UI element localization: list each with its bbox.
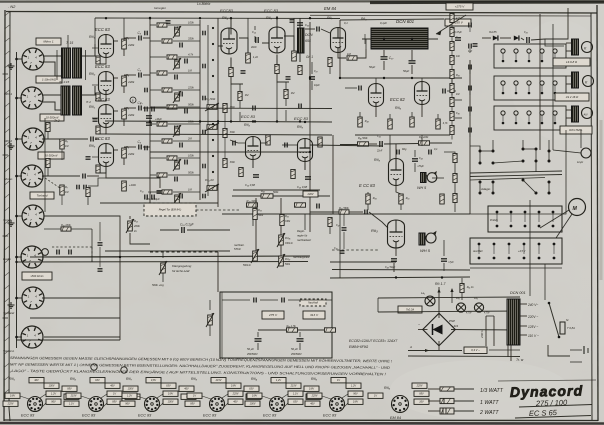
pinout socket Rö₃ ECC 83 (210, 397, 225, 412)
transformer Tr1 winding A (62, 48, 71, 78)
feedback rect loop (220, 292, 332, 358)
svg-text:220k: 220k (187, 86, 194, 90)
svg-text:46V: 46V (110, 385, 115, 388)
misc left caps (93, 119, 98, 121)
svg-text:ECC 83: ECC 83 (82, 414, 96, 418)
svg-text:560k: 560k (273, 191, 279, 194)
coupling cap stage2 (139, 73, 141, 78)
svg-text:Rö₅: Rö₅ (311, 377, 318, 381)
ECC82 splitter left half (369, 84, 384, 107)
svg-text:0,9V: 0,9V (168, 393, 173, 396)
6,3V box (464, 347, 487, 354)
output jack K1 (582, 42, 593, 53)
svg-text:96V: 96V (51, 401, 56, 404)
svg-text:≥500 Ω/min: ≥500 Ω/min (31, 275, 44, 278)
cap C5 pair (77, 185, 79, 190)
svg-text:1,2V: 1,2V (51, 393, 56, 396)
svg-text:1,1V: 1,1V (293, 393, 298, 396)
svg-text:46V: 46V (310, 403, 315, 406)
svg-text:C₄₂: C₄₂ (334, 247, 338, 250)
value boxes around Rö₂ (105, 383, 120, 388)
svg-text:96V: 96V (353, 393, 358, 396)
svg-text:330k lin: 330k lin (285, 243, 294, 245)
svg-text:Rö₁: Rö₁ (89, 105, 96, 109)
socket label boxes (36, 38, 61, 45)
tone row 3 cap (185, 59, 187, 64)
tone row 4 cap (175, 75, 177, 80)
triode Rö2 lower (246, 137, 261, 160)
svg-text:0,1: 0,1 (344, 21, 348, 25)
pot Pol34 500k lin (253, 251, 258, 261)
svg-text:T. 15: T. 15 (66, 41, 73, 45)
svg-text:275 / 100: 275 / 100 (535, 398, 568, 408)
mains fuse (560, 322, 565, 334)
svg-text:230V: 230V (306, 192, 313, 196)
mid dashed link (332, 249, 378, 251)
tone row 5 pot (175, 93, 180, 101)
svg-text:63V: 63V (95, 379, 100, 382)
svg-text:220k: 220k (127, 152, 135, 156)
svg-text:R₄₅: R₄₅ (261, 190, 265, 193)
svg-text:Ltspr: Ltspr (577, 160, 584, 164)
coupling cap stage3 (139, 106, 141, 111)
pinout socket Rö₂ ECC 83 (89, 397, 104, 412)
cathode resistor stage3 (96, 126, 100, 134)
grid resistor R7 (60, 185, 64, 195)
EM84 grid cap (317, 27, 319, 32)
tone row 9 cap (185, 160, 187, 165)
tone row 10 resistor (157, 173, 167, 177)
right-mid resistor column (453, 154, 457, 163)
svg-text:100+100μF: 100+100μF (146, 197, 160, 201)
svg-text:DCN: DCN (305, 33, 313, 37)
ground bus left (16, 52, 18, 348)
bottom-left stage wiring (106, 167, 160, 188)
svg-text:100V: 100V (250, 403, 256, 406)
matrix second cap column (203, 31, 205, 36)
relay mesh wires (480, 150, 493, 152)
cap C27 (309, 77, 315, 79)
svg-text:85V: 85V (67, 388, 72, 391)
svg-text:100V: 100V (168, 401, 174, 404)
svg-text:1,2V: 1,2V (276, 379, 281, 382)
tone row 6 resistor (167, 105, 177, 109)
svg-text:1,1V: 1,1V (69, 403, 74, 406)
heater bus label (330, 277, 470, 278)
tone row 10 cap (175, 177, 177, 182)
svg-text:C₁₉ 0,1μF: C₁₉ 0,1μF (180, 223, 195, 227)
mains voltage taps (520, 303, 527, 305)
svg-text:1V: 1V (337, 379, 340, 382)
switch bank underline (470, 267, 562, 269)
lower mid anode resistors (266, 135, 270, 145)
svg-text:C₄₃: C₄₃ (419, 157, 423, 160)
svg-text:Radio: Radio (3, 257, 11, 261)
supply box +275V (446, 3, 473, 10)
svg-text:R₅: R₅ (65, 140, 68, 143)
grid resistors left column (46, 123, 50, 132)
svg-text:85V: 85V (419, 393, 424, 396)
pot lower (207, 186, 217, 191)
frame left hatch ticks (5, 12, 10, 16)
input socket Bu3 (22, 128, 44, 150)
svg-text:+313: +313 (452, 324, 459, 328)
cap C44 (455, 38, 461, 40)
frame bottom band (4, 419, 598, 422)
left lower cap pair (98, 243, 103, 245)
svg-text:Aus/Halt: Aus/Halt (472, 250, 483, 253)
svg-text:4,7k: 4,7k (188, 53, 194, 57)
mains cord to switch (548, 345, 570, 356)
slant dashed link (42, 176, 60, 188)
svg-text:63V: 63V (166, 385, 171, 388)
tone row 2 resistor (162, 39, 172, 43)
cathode RC lower mid (239, 168, 243, 177)
pinout socket Rö6 EM84 (392, 396, 409, 413)
svg-text:E CC 83: E CC 83 (359, 183, 375, 188)
svg-text:50μF: 50μF (369, 65, 375, 69)
page top edge band (0, 0, 604, 3)
anode resistors Rö4 Rö5 (246, 53, 251, 63)
svg-text:22nF: 22nF (376, 151, 383, 153)
svg-text:C₂₉: C₂₉ (524, 31, 528, 34)
ground at Bu7 (8, 302, 15, 308)
svg-text:330k: 330k (285, 220, 291, 223)
slanted wire bundle (470, 171, 562, 173)
svg-text:La₂: La₂ (456, 297, 460, 300)
pickup caps (57, 250, 59, 255)
socket leads Rö₇ (157, 394, 163, 398)
svg-text:0,9V: 0,9V (252, 395, 257, 398)
svg-text:10μF: 10μF (314, 84, 320, 87)
svg-text:C₂₇: C₂₇ (314, 70, 318, 73)
svg-text:Rö₇: Rö₇ (126, 377, 133, 381)
svg-text:0,1μF: 0,1μF (380, 21, 387, 25)
filter cap 50uF A (255, 339, 262, 341)
svg-text:Tr. w: Tr. w (516, 358, 524, 362)
ground at Bu5 (8, 220, 15, 226)
svg-text:R₆₈ 1,5k: R₆₈ 1,5k (287, 325, 297, 328)
svg-text:7x0,3A: 7x0,3A (406, 308, 415, 312)
tone row 3 resistor (167, 55, 177, 59)
frame top line (6, 12, 597, 14)
svg-text:240 V~: 240 V~ (527, 303, 538, 307)
svg-text:Rö₇: Rö₇ (327, 16, 333, 20)
svg-text:LS 2 16 Ω: LS 2 16 Ω (566, 95, 579, 99)
pilot lamps La2 La3 (456, 303, 465, 312)
svg-text:R₅₀: R₅₀ (406, 197, 410, 200)
svg-text:Lo-Matrix: Lo-Matrix (197, 2, 211, 6)
svg-text:450/500V: 450/500V (247, 353, 258, 356)
right-mid link wires (444, 152, 455, 154)
driver grid bus (358, 142, 369, 146)
svg-text:ECC 83: ECC 83 (21, 414, 35, 418)
nachhall dashed boxes (300, 299, 326, 306)
svg-text:PSP: PSP (449, 319, 455, 323)
svg-text:2 WATT: 2 WATT (479, 410, 499, 416)
svg-text:La₁: La₁ (421, 291, 425, 295)
triode Rö₁ stage1 (99, 35, 114, 58)
logo underline 1 (519, 405, 592, 408)
svg-text:R₆₁ 1k: R₆₁ 1k (467, 286, 475, 289)
svg-text:6,3 V ~: 6,3 V ~ (471, 348, 480, 352)
coupling caps to power stage (451, 97, 453, 103)
svg-text:Tr 2: Tr 2 (54, 119, 60, 123)
anode resistor stage4 (122, 148, 127, 158)
svg-text:WH 5: WH 5 (417, 186, 427, 190)
svg-text:Preblo: Preblo (490, 218, 498, 222)
svg-text:ECC82=12AU7 ECC83= 12AX7: ECC82=12AU7 ECC83= 12AX7 (349, 339, 397, 343)
mid caps row y108 (253, 106, 255, 111)
hatched pickup head WH5 upper (421, 173, 427, 183)
feedback wire from output (470, 200, 566, 214)
input socket Bu6 (21, 246, 43, 268)
push switch bank row 2 (494, 76, 566, 100)
svg-text:85V: 85V (190, 403, 195, 406)
tone row 6 cap (185, 109, 187, 114)
svg-text:0,8V: 0,8V (353, 401, 358, 404)
upper mid wiring (230, 18, 232, 35)
svg-text:230 V: 230 V (480, 329, 484, 339)
svg-text:275 V: 275 V (268, 313, 278, 317)
psu vertical rails (529, 200, 531, 296)
Tr1 flank wires (56, 50, 58, 80)
svg-text:Tr₁ 1:15: Tr₁ 1:15 (59, 80, 70, 84)
svg-text:215V: 215V (70, 395, 77, 398)
filter wiring (258, 329, 286, 331)
grid leak resistors (238, 92, 242, 101)
matrix left feed caps (145, 31, 147, 36)
svg-text:100V: 100V (128, 388, 134, 391)
svg-text:Adagio: Adagio (480, 187, 491, 191)
matrix junction dots (212, 27, 214, 29)
svg-text:Tonband: Tonband (3, 311, 15, 315)
coupling caps top (256, 37, 258, 43)
logo box left line (510, 345, 512, 361)
screen caps Rö4 Rö5 (241, 71, 246, 73)
svg-text:1,2V: 1,2V (127, 395, 132, 398)
output jack K2 (583, 76, 594, 87)
under-matrix rail (100, 202, 218, 204)
svg-text:Rö₄: Rö₄ (251, 377, 258, 381)
supply box +255V (445, 19, 471, 26)
callout circle D1 (91, 364, 97, 370)
logo underline 2 (515, 416, 591, 419)
svg-text:Rö₆: Rö₆ (384, 386, 391, 390)
svg-text:R₁₃: R₁₃ (134, 219, 138, 223)
ECC82 splitter right half (415, 82, 430, 105)
svg-text:phono: phono (3, 177, 13, 181)
driver out wire (330, 261, 396, 263)
svg-text:R₃₃: R₃₃ (258, 209, 262, 212)
svg-text:4,7W: 4,7W (466, 312, 472, 315)
bus below mid tubes (247, 203, 258, 207)
svg-text:ECC 83: ECC 83 (95, 27, 110, 32)
long mid horizontals (30, 256, 310, 257)
right long rails (539, 14, 541, 150)
wattage legend resistor 1/3W (440, 387, 454, 391)
svg-text:Klangregelung: Klangregelung (172, 264, 192, 268)
triode Rö₂ stage2 (99, 72, 114, 95)
vertical rail x470 (469, 60, 471, 214)
tone row 8 cap (180, 143, 182, 148)
hatched pickup WH5 lower (419, 233, 425, 245)
svg-text:LS 6-8 Ω: LS 6-8 Ω (566, 60, 578, 64)
socket leads Rö₃ (222, 394, 228, 398)
pot Pol37 500k (279, 256, 284, 266)
svg-text:A: A (409, 345, 412, 349)
dashed divider bottom mid (221, 292, 223, 358)
svg-text:225V: 225V (7, 403, 14, 406)
svg-text:16V: 16V (419, 401, 424, 404)
value boxes around Rö₅ (346, 383, 361, 388)
tone row 2 cap (180, 43, 182, 48)
svg-text:ECC83: ECC83 (220, 8, 234, 13)
EM84 feed resistor (347, 56, 357, 60)
svg-text:ECC 83: ECC 83 (138, 414, 152, 418)
between-cluster boxes Rö₄ (304, 386, 319, 391)
svg-text:+10Ω: +10Ω (129, 183, 137, 187)
logo box top line (498, 380, 596, 381)
value boxes around Rö₇ (161, 383, 176, 388)
tone row 7 resistor (157, 122, 167, 126)
between-cluster boxes Rö₂ (123, 386, 138, 391)
triode Rö₃ stage4 (99, 144, 114, 167)
value boxes around EM84 (412, 383, 427, 388)
svg-text:Rö₆: Rö₆ (395, 106, 402, 110)
svg-text:30-300mV: 30-300mV (45, 154, 59, 158)
svg-text:Tonband: Tonband (37, 194, 48, 198)
tone row 8 resistor (162, 139, 172, 143)
resistor R35 330k (280, 215, 284, 226)
svg-text:4,7k: 4,7k (443, 122, 448, 125)
svg-text:46V: 46V (34, 379, 39, 382)
cap C43 (412, 159, 418, 161)
svg-text:46V: 46V (184, 388, 189, 391)
ground at Bu3 (8, 143, 15, 149)
motor M (569, 199, 586, 216)
svg-text:Rö₂: Rö₂ (70, 377, 77, 381)
svg-text:+40μF: +40μF (155, 118, 162, 121)
svg-text:Pegel Tor (EM 84.): Pegel Tor (EM 84.) (159, 208, 182, 212)
R61 resistor (460, 284, 464, 293)
socket link wires bottom-left (44, 216, 120, 240)
svg-text:0,8V: 0,8V (309, 388, 314, 391)
dense dropper column A (450, 14, 454, 23)
motor cords (540, 210, 569, 228)
svg-text:Rö₃: Rö₃ (361, 17, 367, 21)
pegel box (144, 203, 196, 216)
svg-text:R₅₇ 560k: R₅₇ 560k (339, 207, 350, 210)
svg-text:220k: 220k (127, 80, 135, 84)
mains plug ticks (583, 346, 585, 354)
output transformer T2 (572, 72, 579, 88)
interstage vertical rail (149, 18, 151, 205)
svg-text:C₂₅ 0,68: C₂₅ 0,68 (245, 183, 256, 187)
svg-text:Nachhall: Nachhall (308, 301, 318, 304)
svg-text:220k: 220k (127, 43, 135, 47)
dashed routing lower left (52, 246, 92, 248)
selenium diodes (493, 35, 498, 40)
ground at Bu1 (8, 63, 15, 69)
tone row 9 resistor (167, 156, 177, 160)
svg-text:96V: 96V (125, 403, 130, 406)
cathode resistor stage1 (96, 56, 100, 64)
svg-text:Pol₃₆: Pol₃₆ (285, 237, 290, 240)
tone row 5 cap (180, 92, 182, 97)
svg-text:C₁₁: C₁₁ (140, 190, 144, 193)
left pin bus (44, 118, 46, 212)
DCN601 leads (362, 38, 371, 40)
svg-text:ECC 83: ECC 83 (241, 114, 256, 119)
transformer Tr2 winding B (73, 86, 82, 115)
mid horizontal rails (150, 107, 332, 110)
push switch bank row 3 (494, 106, 566, 130)
triode Rö4 ECC83 (221, 28, 237, 54)
svg-text:1μF: 1μF (468, 50, 473, 53)
socket leads Rö₅ (342, 394, 348, 398)
svg-text:+255 V: +255 V (453, 21, 464, 25)
vertical x92 link (91, 229, 93, 262)
socket leads Rö₄ (282, 394, 288, 398)
between-cluster boxes Rö₇ (179, 386, 194, 391)
wattage legend resistor 1W (440, 398, 454, 403)
svg-text:+275 V: +275 V (455, 5, 466, 9)
grid stoppers near tubes (92, 47, 99, 49)
svg-text:R₃₅: R₃₅ (285, 215, 289, 218)
svg-text:DCN 001: DCN 001 (510, 291, 526, 295)
callout circle D2 (121, 367, 127, 373)
svg-text:für Echo-Hall: für Echo-Hall (172, 269, 190, 273)
EM84 cathode resistor (328, 58, 332, 67)
value boxes around Rö₄ (286, 383, 301, 388)
filter cap 50uF B (297, 339, 304, 341)
pinout socket Rö₅ ECC 83 (330, 397, 345, 412)
svg-text:EM 84: EM 84 (324, 6, 337, 11)
svg-text:500k lin: 500k lin (243, 265, 252, 267)
svg-text:R₄₆ 560k: R₄₆ 560k (358, 137, 368, 140)
svg-text:ECC 83: ECC 83 (95, 136, 110, 141)
svg-text:regler für: regler für (297, 234, 308, 238)
record level box (22, 272, 52, 280)
driver tube Rö3 bottom (388, 220, 405, 248)
cathode resistor stage4 (96, 165, 100, 173)
svg-text:225V: 225V (232, 393, 239, 396)
svg-text:EM 84: EM 84 (390, 416, 401, 420)
svg-text:Rö₃: Rö₃ (371, 228, 378, 233)
treble pot mid (207, 125, 217, 130)
cathode resistor stage2 (96, 93, 100, 101)
transformer Tr1 winding B (73, 48, 82, 78)
svg-text:225V: 225V (416, 385, 423, 388)
svg-text:63V: 63V (293, 401, 298, 404)
echo pot 500k (161, 263, 166, 273)
frame top second line right (310, 14, 591, 17)
anode resistor stage1 (122, 39, 127, 49)
input socket Bu7 (22, 287, 44, 309)
svg-text:220k: 220k (127, 113, 135, 117)
right edge smudge (600, 120, 603, 280)
tone row 11 resistor (162, 190, 172, 194)
svg-text:2M: 2M (187, 137, 192, 141)
right rail resistors (223, 104, 227, 113)
svg-text:330k: 330k (230, 131, 236, 134)
supply node box 313V (303, 311, 325, 319)
matrix vertical rails (199, 20, 201, 200)
heater lamp La1 (425, 296, 435, 306)
svg-text:1-10mV/kΩ: 1-10mV/kΩ (42, 78, 57, 82)
tone row 1 resistor (157, 23, 167, 27)
